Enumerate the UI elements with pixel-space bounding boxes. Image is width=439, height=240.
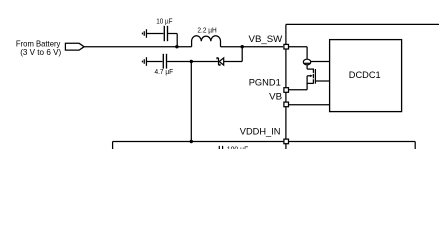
wire: VDDH node down to bottom rail [190, 62, 192, 142]
svg-text:2.2 µH: 2.2 µH [197, 26, 216, 35]
junction dot: bottom rail [190, 140, 193, 143]
svg-text:VB: VB [269, 92, 282, 102]
wire: inductor to VB_SW pad [221, 46, 284, 48]
chip boundary outline (partially cropped) [286, 24, 439, 149]
svg-text:4.7 µF: 4.7 µF [155, 67, 174, 76]
pin pad VDDH_IN [284, 139, 289, 144]
pin pad PGND1 [284, 88, 289, 93]
body arrow of Q1 [310, 75, 313, 78]
svg-text:PGND1: PGND1 [249, 78, 281, 88]
junction dot: switch node [241, 45, 244, 48]
ground (10 uF) [142, 29, 163, 38]
wire: switch node down to diode [241, 47, 243, 62]
battery input connector J1 (From Battery) [16, 38, 84, 57]
capacitor C1 10 uF [156, 16, 177, 46]
DCDC1 block [330, 40, 402, 112]
junction dot: C2 / VDDH node [190, 60, 193, 63]
wire: VB_SW pad to internal switch [289, 47, 308, 60]
schottky diode D1 [217, 58, 242, 65]
svg-text:100 µF: 100 µF [227, 144, 249, 149]
current sensor bubble [303, 59, 329, 65]
svg-text:DCDC1: DCDC1 [349, 70, 381, 80]
ground (4.7 uF) [142, 57, 162, 66]
svg-text:VB_SW: VB_SW [249, 34, 283, 44]
svg-text:(3 V to 6 V): (3 V to 6 V) [20, 47, 61, 57]
pin pad VB [284, 102, 289, 107]
wire: PGND1 pad to transistor source [289, 76, 308, 90]
bottom rail wire (VDDH_IN net) [113, 142, 416, 150]
svg-text:10 µF: 10 µF [156, 16, 173, 25]
junction dot: C1 tap on battery rail [175, 45, 178, 48]
inductor L1 2.2 uH [192, 26, 221, 47]
wire: VB pad to DCDC1 box [289, 104, 330, 106]
bulk capacitor value (cut off at bottom edge) [219, 144, 248, 153]
wire: battery to inductor [84, 46, 192, 48]
capacitor C2 4.7 uF [155, 54, 218, 76]
svg-text:VDDH_IN: VDDH_IN [240, 127, 281, 137]
transistor Q1 (internal NMOS switch) [307, 65, 330, 84]
pin pad VB_SW [284, 44, 289, 49]
